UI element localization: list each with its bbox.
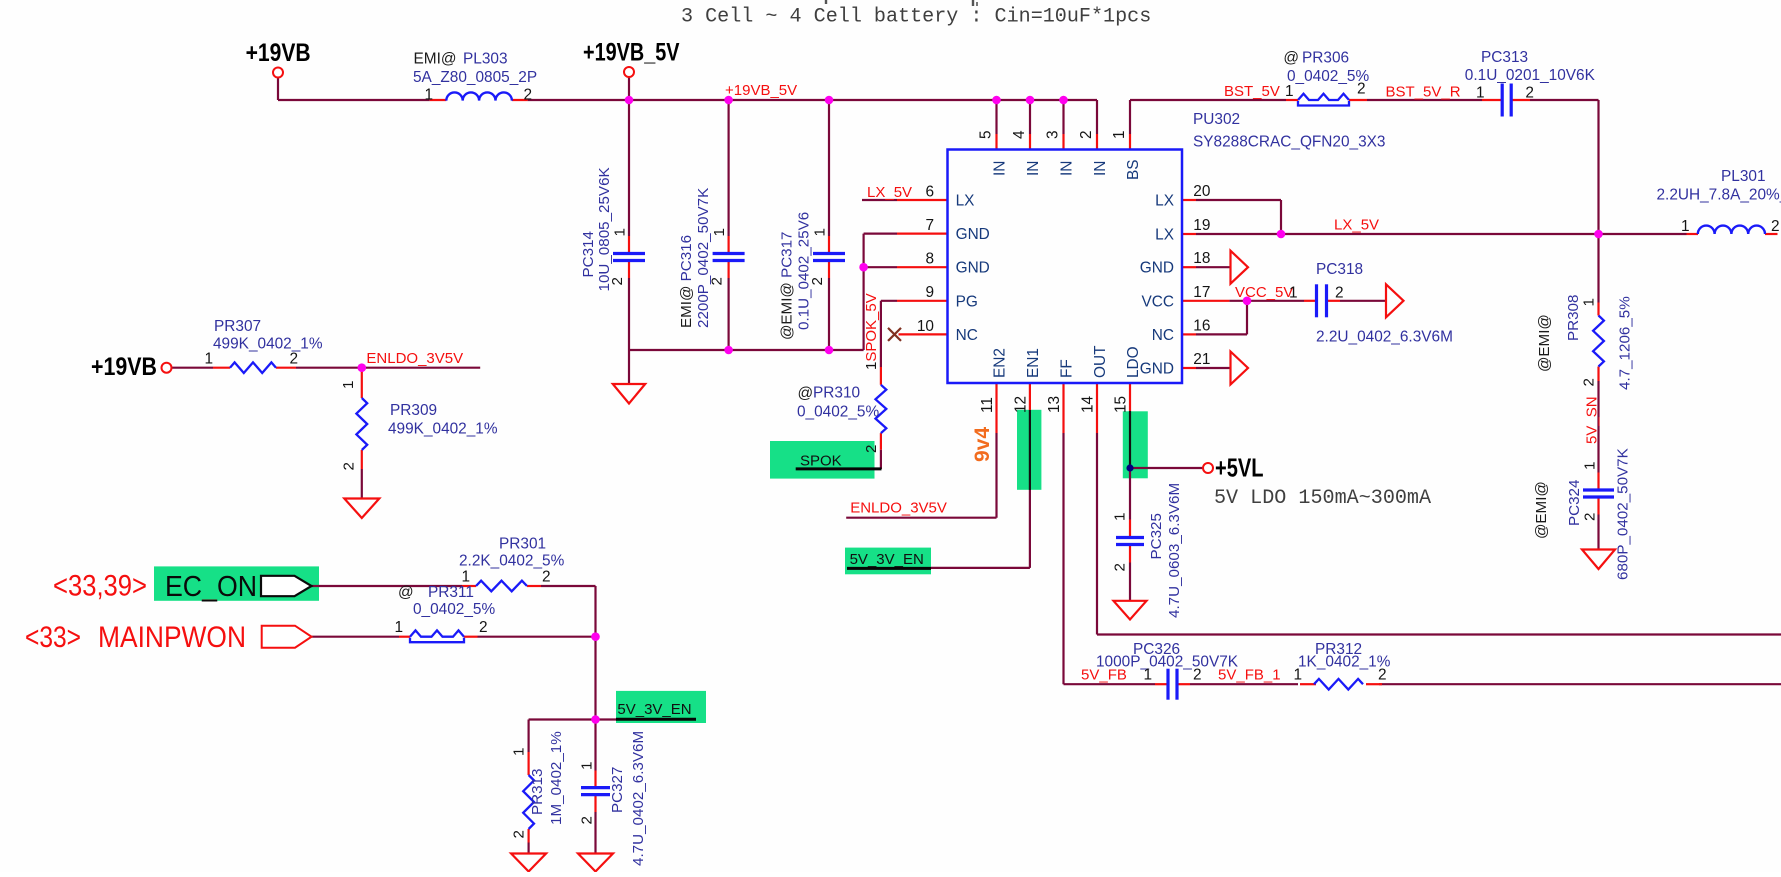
op-amp, IC PU302 body	[948, 150, 1183, 384]
svg-text:0.1U_0402_25V6: 0.1U_0402_25V6	[796, 212, 813, 330]
wire EC_ON to PR301 to junction	[312, 586, 596, 720]
resistor PR312	[1314, 679, 1363, 690]
PR306 pin numbers	[1285, 81, 1366, 101]
resistor PR307	[230, 362, 276, 373]
junction dots ground bus	[724, 346, 833, 355]
svg-text:LDO: LDO	[1125, 346, 1142, 378]
resistor PR309	[356, 398, 367, 450]
wire junction to PC327	[594, 720, 596, 854]
wire pin16 NC to VCC node	[1196, 301, 1247, 335]
svg-text:FF: FF	[1059, 359, 1076, 378]
wire MAINPWON to PR311 to junction	[312, 636, 596, 638]
resistor PR306 (0 ohm)	[1298, 94, 1349, 106]
svg-text:BST_5V_R: BST_5V_R	[1386, 84, 1461, 101]
ground below PR309	[344, 499, 379, 519]
svg-text:2: 2	[863, 445, 880, 453]
wire pin21 GND to port	[1196, 367, 1231, 369]
svg-text:@EMI@: @EMI@	[1533, 481, 1550, 539]
svg-text:2: 2	[1335, 285, 1344, 302]
wire through EN1 highlight	[1029, 410, 1031, 490]
ground below PC324	[1582, 550, 1615, 570]
highlight box pin12 EN1	[1017, 410, 1041, 490]
wire through LDO highlight	[1129, 411, 1131, 468]
svg-text:21: 21	[1193, 351, 1210, 368]
svg-text:2: 2	[1378, 666, 1387, 683]
svg-text:2: 2	[1357, 81, 1366, 98]
wire pin20/pin19 LX to LX_5V net	[1196, 200, 1687, 234]
svg-text:EMI@: EMI@	[414, 51, 457, 68]
svg-text:BS: BS	[1125, 159, 1142, 180]
wire pin17 VCC to PC318	[1229, 300, 1386, 302]
svg-text:BST_5V: BST_5V	[1224, 83, 1280, 100]
5V_3V_EN bottom underline	[616, 718, 696, 721]
svg-text:6: 6	[925, 183, 934, 200]
svg-text:1: 1	[711, 228, 728, 236]
junction VCC_5V	[1243, 297, 1252, 306]
wire PR309 branch to ground	[361, 469, 363, 499]
svg-text:PG: PG	[956, 293, 978, 310]
PL301 pin numbers	[1681, 218, 1780, 235]
IC bottom pin numbers	[979, 395, 1129, 413]
svg-text:NC: NC	[1152, 327, 1174, 344]
capacitor PC317	[813, 254, 845, 261]
svg-text:2: 2	[1582, 513, 1599, 521]
svg-text:2: 2	[579, 816, 596, 824]
svg-text:1: 1	[1285, 83, 1294, 100]
svg-text:2: 2	[290, 351, 299, 368]
terminal +19VB (top)	[273, 68, 283, 78]
svg-text:4.7U_0603_6.3V6M: 4.7U_0603_6.3V6M	[1166, 483, 1183, 618]
svg-text:1: 1	[579, 762, 596, 770]
svg-text:2200P_0402_50V7K: 2200P_0402_50V7K	[695, 188, 712, 328]
svg-text:2.2K_0402_5%: 2.2K_0402_5%	[459, 553, 565, 570]
highlight box 5V_3V_EN bottom	[616, 691, 706, 723]
label @ PR311	[398, 584, 474, 601]
capacitor PC324	[1583, 490, 1614, 497]
svg-text:SPOK: SPOK	[800, 453, 842, 470]
IC left pin leads	[897, 200, 948, 334]
inductor PL303	[446, 92, 512, 100]
svg-text:14: 14	[1080, 395, 1097, 413]
svg-text:+19VB_5V: +19VB_5V	[583, 39, 680, 67]
svg-text:18: 18	[1193, 250, 1210, 267]
svg-text:PU302: PU302	[1193, 111, 1240, 128]
svg-text:2: 2	[609, 277, 626, 285]
svg-text:PC314: PC314	[580, 231, 597, 277]
@PR310 labels	[797, 385, 880, 454]
ground below PC314	[613, 384, 645, 404]
svg-text:7: 7	[925, 217, 934, 234]
svg-text:2: 2	[511, 830, 528, 838]
IC right pin names	[1140, 193, 1174, 378]
wire pin14 OUT to right edge	[1097, 433, 1781, 635]
svg-text:1: 1	[394, 619, 403, 636]
svg-text:NC: NC	[956, 327, 978, 344]
wire PG pin9 to PR310	[881, 301, 897, 469]
wire junction to PR313	[529, 720, 596, 854]
IC top pin numbers	[978, 130, 1129, 139]
svg-text:2: 2	[524, 87, 533, 104]
svg-text:+19VB_5V: +19VB_5V	[725, 82, 797, 99]
svg-text:ENLDO_3V5V: ENLDO_3V5V	[366, 350, 463, 367]
port arrow GND pin21	[1231, 352, 1249, 385]
resistor PR311 (0 ohm)	[410, 630, 464, 642]
cut-off text fragments top edge	[826, 0, 977, 6]
ground below PC327	[578, 854, 613, 872]
svg-text:IN: IN	[1025, 161, 1042, 176]
svg-text:<33,39>: <33,39>	[53, 570, 147, 603]
ground below PC325	[1114, 601, 1147, 620]
highlight box pin15 LDO	[1123, 411, 1148, 478]
svg-text:0_0402_5%: 0_0402_5%	[413, 601, 495, 618]
wire pin12 EN1 to 5V_3V_EN	[931, 490, 1030, 568]
svg-text:PC313: PC313	[1481, 49, 1528, 66]
PL303 pin numbers	[424, 87, 532, 104]
svg-text:1SPOK_5V: 1SPOK_5V	[863, 293, 880, 370]
resistor PR310	[876, 385, 887, 433]
svg-text:PR307: PR307	[214, 318, 261, 335]
wire PC316 branch	[727, 100, 729, 350]
SPOK net underline	[796, 467, 882, 470]
PC314 labels	[580, 167, 629, 291]
PC313 pin numbers	[1476, 85, 1534, 102]
wire PC314 branch	[628, 100, 630, 350]
svg-text:4.7_1206_5%: 4.7_1206_5%	[1617, 296, 1634, 390]
svg-text:LX: LX	[1155, 193, 1174, 210]
svg-text:1: 1	[511, 748, 528, 756]
svg-text:5V_SN: 5V_SN	[1584, 396, 1601, 444]
capacitor PC316	[713, 254, 745, 261]
PR301 pin numbers	[461, 569, 550, 586]
svg-text:PC325: PC325	[1148, 513, 1165, 559]
svg-text:1M_0402_1%: 1M_0402_1%	[548, 731, 565, 825]
svg-text:5V_FB: 5V_FB	[1081, 666, 1127, 683]
svg-text:OUT: OUT	[1092, 345, 1109, 378]
junction dots +19VB_5V bus	[625, 96, 1068, 105]
capacitor PC325	[1116, 538, 1144, 545]
PR311 pin numbers	[394, 619, 487, 636]
IC bottom pin names	[992, 345, 1143, 378]
svg-text:2: 2	[1525, 85, 1534, 102]
svg-text:2: 2	[1078, 130, 1095, 139]
svg-text:PC324: PC324	[1566, 480, 1583, 526]
svg-text:LX: LX	[956, 193, 975, 210]
wire pin18 GND to port	[1196, 266, 1231, 268]
svg-text:1: 1	[812, 228, 829, 236]
svg-text:@EMI@ PC317: @EMI@ PC317	[779, 231, 796, 340]
svg-text:4: 4	[1011, 130, 1028, 139]
svg-text:@: @	[798, 385, 814, 402]
junction LX pins 19/20	[1277, 230, 1286, 239]
svg-text:3 Cell ~ 4 Cell battery : Cin=: 3 Cell ~ 4 Cell battery : Cin=10uF*1pcs	[681, 6, 1151, 29]
svg-text:1: 1	[1112, 513, 1129, 521]
PC325 labels	[1112, 483, 1184, 618]
IC top pin leads	[997, 134, 1131, 150]
svg-text:11: 11	[979, 397, 996, 413]
junction ENLDO_3V5V	[358, 363, 367, 372]
svg-text:PC318: PC318	[1316, 261, 1363, 278]
svg-text:PR311: PR311	[428, 584, 474, 601]
PC327 labels	[579, 731, 648, 866]
terminal +5VL	[1203, 463, 1213, 473]
svg-text:1: 1	[1582, 462, 1599, 470]
svg-text:2: 2	[479, 619, 488, 636]
wire pin6 LX_5V stub	[862, 199, 897, 201]
svg-text:9v4: 9v4	[971, 427, 994, 462]
port arrow GND pin18	[1231, 251, 1249, 284]
ground below PR313	[511, 854, 546, 872]
wire ground bus below caps to pins 7,8	[629, 234, 897, 384]
svg-text:EN2: EN2	[992, 348, 1009, 378]
svg-text:@: @	[1283, 50, 1299, 67]
wire BS net pin1 to PR306/PC313	[1130, 100, 1599, 234]
svg-text:1: 1	[1581, 298, 1598, 306]
svg-text:PR313: PR313	[529, 769, 546, 815]
svg-text:VCC: VCC	[1142, 293, 1175, 310]
svg-text:19: 19	[1193, 217, 1210, 234]
svg-text:20: 20	[1193, 183, 1210, 200]
svg-text:@EMI@: @EMI@	[1536, 314, 1553, 372]
svg-text:PR310: PR310	[813, 385, 860, 402]
PC317 labels	[779, 212, 829, 340]
svg-text:499K_0402_1%: 499K_0402_1%	[388, 421, 498, 438]
label <33> MAINPWON	[25, 621, 246, 654]
IC top pin names IN/BS	[992, 159, 1143, 180]
PR307 pin numbers	[204, 351, 298, 368]
svg-text:0_0402_5%: 0_0402_5%	[797, 404, 879, 421]
PR309 labels	[340, 381, 498, 471]
svg-text:2: 2	[709, 277, 726, 285]
wire pin15 LDO node to +5VL and PC325	[1130, 468, 1203, 601]
svg-text:16: 16	[1193, 317, 1210, 334]
highlight box 5V_3V_EN left	[845, 548, 931, 575]
svg-text:PR301: PR301	[499, 536, 546, 553]
port MAINPWON	[262, 626, 312, 648]
PR308 labels	[1536, 295, 1634, 390]
svg-text:2: 2	[1771, 218, 1780, 235]
svg-text:+5VL: +5VL	[1215, 453, 1264, 483]
svg-text:8: 8	[925, 251, 934, 268]
svg-text:2: 2	[1112, 563, 1129, 571]
junction MAINPWON/EC_ON	[591, 632, 600, 641]
inductor PL301	[1698, 226, 1765, 234]
svg-text:PL303: PL303	[463, 51, 508, 68]
svg-text:499K_0402_1%: 499K_0402_1%	[213, 336, 323, 353]
capacitor PC318	[1317, 284, 1327, 317]
svg-text:PL301: PL301	[1721, 168, 1766, 185]
svg-text:2: 2	[809, 277, 826, 285]
svg-text:PR309: PR309	[390, 402, 437, 419]
IC right pin numbers	[1193, 183, 1210, 368]
svg-text:17: 17	[1193, 284, 1210, 301]
svg-text:LX_5V: LX_5V	[867, 184, 912, 201]
no-connect X pin10	[888, 328, 901, 341]
svg-text:1: 1	[424, 87, 433, 104]
capacitor PC327	[581, 788, 610, 795]
port EC_ON	[261, 576, 312, 596]
svg-text:1: 1	[1681, 218, 1690, 235]
svg-text:1: 1	[1143, 666, 1152, 683]
junction LDO node (navy)	[1126, 464, 1133, 471]
svg-text:5V_FB_1: 5V_FB_1	[1218, 666, 1281, 683]
svg-text:LX_5V: LX_5V	[1334, 217, 1379, 234]
svg-text:680P_0402_50V7K: 680P_0402_50V7K	[1615, 448, 1632, 580]
svg-text:PC327: PC327	[609, 767, 626, 813]
svg-text:1: 1	[204, 351, 213, 368]
svg-text:LX: LX	[1155, 227, 1174, 244]
svg-text:10U_0805_25V6K: 10U_0805_25V6K	[596, 167, 613, 291]
svg-text:1K_0402_1%: 1K_0402_1%	[1298, 654, 1391, 671]
svg-text:EC_ON: EC_ON	[165, 571, 257, 603]
wire +19VB input to inductor PL303	[278, 78, 430, 100]
component lead segments (red)	[213, 100, 1778, 843]
svg-text:+19VB: +19VB	[91, 353, 157, 381]
svg-text:9: 9	[925, 284, 934, 301]
wire PR308 / PC324 branch	[1597, 234, 1599, 550]
junction 5V_3V_EN	[591, 715, 600, 724]
capacitor PC313	[1502, 84, 1511, 117]
svg-text:MAINPWON: MAINPWON	[98, 621, 246, 654]
svg-text:ENLDO_3V5V: ENLDO_3V5V	[850, 500, 947, 517]
wire +19VB to PR307/ENLDO_3V5V	[172, 367, 481, 369]
svg-text:GND: GND	[1140, 260, 1174, 277]
EC_ON red underline fragment	[202, 600, 217, 602]
svg-text:+19VB: +19VB	[246, 39, 311, 67]
svg-text:15: 15	[1113, 396, 1130, 413]
svg-text:<33>: <33>	[25, 621, 81, 654]
svg-text:IN: IN	[1092, 161, 1109, 176]
IC right pin leads	[1182, 200, 1229, 368]
svg-text:GND: GND	[956, 260, 990, 277]
svg-text:2: 2	[341, 462, 358, 470]
svg-text:EMI@ PC316: EMI@ PC316	[678, 235, 695, 328]
label @ PR306	[1283, 50, 1349, 67]
svg-text:10: 10	[917, 318, 934, 335]
port arrow VCC_5V	[1386, 284, 1404, 317]
svg-text:12: 12	[1013, 396, 1030, 413]
svg-text:3: 3	[1045, 130, 1062, 139]
svg-text:5V_3V_EN: 5V_3V_EN	[617, 701, 691, 718]
IC left pin names	[956, 193, 990, 344]
svg-text:1: 1	[1289, 285, 1298, 302]
svg-text:VCC_5V: VCC_5V	[1235, 284, 1293, 301]
wire PC317 branch	[828, 100, 830, 350]
highlight box SPOK	[770, 441, 875, 479]
junction GND pins 7/8	[859, 263, 868, 272]
svg-text:IN: IN	[1059, 161, 1076, 176]
svg-text:2: 2	[542, 569, 551, 586]
svg-text:PR306: PR306	[1302, 50, 1349, 67]
terminal +19VB (left)	[162, 363, 172, 373]
wire pin13 FF to 5V_FB	[1064, 433, 1781, 684]
svg-text:SY8288CRAC_QFN20_3X3: SY8288CRAC_QFN20_3X3	[1193, 134, 1386, 151]
svg-text:0.1U_0201_10V6K: 0.1U_0201_10V6K	[1465, 67, 1596, 84]
svg-text:2.2UH_7.8A_20%_2P: 2.2UH_7.8A_20%_2P	[1657, 187, 1781, 204]
resistor PR301	[476, 581, 527, 592]
PR312 pin numbers	[1293, 666, 1386, 683]
PR313 labels	[511, 731, 566, 838]
svg-text:PR308: PR308	[1565, 295, 1582, 341]
svg-text:1: 1	[461, 569, 470, 586]
resistor PR313	[523, 775, 534, 829]
PC316 labels	[678, 188, 728, 328]
terminal +19VB_5V	[624, 67, 634, 77]
svg-text:GND: GND	[1140, 361, 1174, 378]
capacitor PC326	[1168, 669, 1177, 700]
PC324 labels	[1533, 448, 1632, 580]
svg-text:@: @	[398, 584, 414, 601]
svg-text:5V_3V_EN: 5V_3V_EN	[850, 551, 924, 568]
svg-text:1: 1	[612, 228, 629, 236]
svg-text:5V LDO 150mA~300mA: 5V LDO 150mA~300mA	[1214, 487, 1432, 510]
resistor PR308	[1593, 316, 1604, 367]
svg-text:1: 1	[340, 381, 357, 389]
svg-text:EN1: EN1	[1025, 348, 1042, 378]
svg-text:4.7U_0402_6.3V6M: 4.7U_0402_6.3V6M	[630, 731, 647, 866]
wire junction to 5V_3V_EN label	[596, 718, 618, 720]
svg-text:1: 1	[1111, 130, 1128, 139]
svg-text:IN: IN	[992, 161, 1009, 176]
IC left pin numbers	[917, 183, 934, 334]
label EMI@ PL303	[414, 51, 508, 68]
PC318 pin numbers	[1289, 285, 1344, 302]
svg-text:13: 13	[1046, 396, 1063, 413]
svg-text:5A_Z80_0805_2P: 5A_Z80_0805_2P	[413, 69, 537, 86]
junction LX_5V / BST	[1594, 230, 1603, 239]
svg-text:2: 2	[1581, 378, 1598, 386]
capacitor PC314	[613, 254, 645, 261]
svg-text:2: 2	[1193, 666, 1202, 683]
5V_3V_EN left underline	[847, 567, 931, 570]
svg-text:1: 1	[1293, 666, 1302, 683]
IC bottom pin leads	[997, 383, 1131, 433]
wire +19VB_5V bus	[528, 77, 1097, 134]
svg-text:GND: GND	[956, 226, 990, 243]
svg-text:2.2U_0402_6.3V6M: 2.2U_0402_6.3V6M	[1316, 329, 1453, 346]
wire pin11 EN2 to ENLDO_3V5V	[846, 433, 996, 518]
PC326 pin numbers	[1143, 666, 1201, 683]
highlight box EC_ON	[154, 566, 319, 600]
svg-text:1: 1	[1476, 85, 1485, 102]
svg-text:5: 5	[978, 130, 995, 139]
